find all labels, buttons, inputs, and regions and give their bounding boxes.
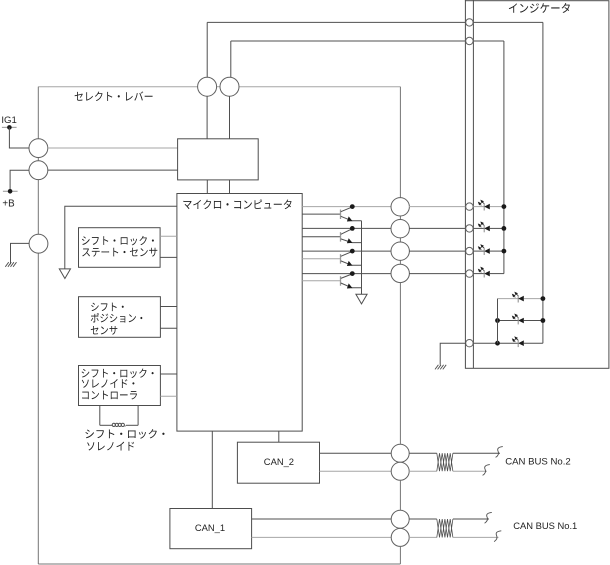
wire: indicator pin row4 to LED D4 — [473, 273, 484, 275]
terminal pin: indicator row1 — [466, 203, 473, 210]
wire: right bus between circles 1-2 — [399, 216, 401, 220]
wire: interface box to microcomputer (left) — [206, 180, 208, 194]
junction: collector node Q3 — [350, 249, 355, 254]
wire: LED D4 to common rail — [490, 273, 504, 275]
wire: state sensor to microcomputer (lower) — [160, 256, 177, 258]
wire: ground row connector circle to chassis ground — [11, 243, 30, 264]
twisted pair: CAN bus No.2 — [437, 453, 453, 471]
wire: controller to microcomputer (lower) — [160, 395, 177, 397]
wire: +B connector circle to terminal — [10, 170, 29, 191]
label: microcomputer — [183, 199, 291, 209]
wire: connector circle 2 down to interface box — [229, 96, 231, 139]
wire: right bus between circles 2-3 — [399, 238, 401, 242]
wire break: CAN_1 high — [485, 512, 492, 523]
terminal pin: indicator row4 — [466, 270, 473, 277]
inductor: shift lock solenoid coil — [112, 423, 126, 426]
block: select lever interface — [178, 139, 259, 180]
twisted pair: CAN bus No.1 — [437, 519, 453, 537]
svg-text:CAN_1: CAN_1 — [195, 522, 225, 533]
junction: collector node Q1 — [350, 204, 355, 209]
wire: position sensor to microcomputer (lower) — [160, 327, 177, 329]
wire: left rail segment 3 — [37, 180, 39, 235]
wire: right LED rail (vertical) — [542, 22, 544, 343]
connector: inline circle on left rail (ground row) — [29, 234, 48, 253]
junction: LED D3 at common rail — [502, 249, 507, 254]
connector: CAN_1 inline circle low — [391, 528, 409, 546]
wire: CAN_2 low to bus break — [453, 470, 487, 472]
junction: LED D1 at common rail — [502, 204, 507, 209]
wire: right bus segment 4 (to bottom rail) — [399, 546, 401, 564]
svg-text:CAN BUS No.1: CAN BUS No.1 — [513, 520, 577, 531]
label: shift lock state sensor line1 — [82, 236, 154, 246]
wire: IG1 to connector circle — [9, 127, 29, 148]
ground: emitter ground arrow — [356, 294, 367, 304]
wire: CAN_2 high to bus break — [453, 452, 500, 454]
wire: upper LED common rail (vertical) — [503, 41, 505, 274]
terminal IG1: dot — [7, 125, 12, 130]
label: shift position sensor line2 — [91, 313, 143, 323]
connector: inline circle on left rail (+B row) — [29, 161, 48, 180]
junction: row B at right rail — [541, 318, 546, 323]
wire: select lever connector to right bus corner — [239, 86, 400, 88]
wire: controller to solenoid (right leg) — [137, 406, 139, 426]
wire: CAN_1 low to bus break — [453, 536, 499, 538]
wire: left rail segment 4 (to bottom rail) — [37, 253, 39, 564]
indicator connector column — [472, 0, 474, 368]
block: microcomputer (マイクロ・コンピュータ) — [177, 194, 302, 432]
terminal +B: bar — [3, 190, 18, 192]
wire: LED D1 to common rail — [490, 206, 504, 208]
transistor Q2 — [341, 229, 362, 244]
label: indicator (インジケータ) — [509, 3, 570, 13]
LED D2 — [478, 222, 489, 232]
wire: interface box to microcomputer (right) — [229, 180, 231, 194]
svg-text:CAN_2: CAN_2 — [264, 456, 294, 467]
wire: solenoid left lead — [100, 424, 112, 426]
label: controller line1 — [82, 368, 154, 378]
transistor Q4 — [341, 274, 362, 289]
wire: pin B to left LED rail — [473, 40, 504, 42]
wire: state sensor to microcomputer (upper) — [160, 235, 177, 237]
wire: lower LED group row A — [498, 298, 543, 300]
ground: signal ground arrow (left) — [59, 269, 70, 279]
terminal pin: indicator row3 — [466, 247, 473, 254]
wire: microcomputer base drive 1 — [302, 213, 340, 215]
wire break: CAN_2 high — [496, 447, 503, 458]
label: select lever (セレクト・レバー) — [75, 91, 153, 101]
connector: CAN_2 inline circle high — [391, 444, 409, 462]
connector: inline circle row 1 — [391, 198, 409, 216]
LED D4 — [478, 267, 489, 277]
wire break: CAN_2 low — [483, 465, 490, 476]
terminal pin: indicator B (top2) — [466, 37, 473, 44]
label: shift lock solenoid line1 — [85, 429, 164, 439]
wire: controller to solenoid (left leg) — [99, 406, 101, 426]
connector: inline circle row 4 — [391, 264, 409, 282]
wire: microcomputer base drive 2 — [302, 236, 340, 238]
wire: inline connector 3 to indicator pin — [409, 250, 466, 252]
wire: pin ground/common to lower LED row C — [473, 342, 543, 344]
wire: controller to microcomputer (upper) — [160, 373, 177, 375]
svg-text:CAN BUS No.2: CAN BUS No.2 — [505, 457, 571, 468]
terminal pin: indicator row2 — [466, 225, 473, 232]
wire: CAN_2 high connector to twisted pair — [409, 452, 437, 454]
terminal IG1: bar — [2, 126, 17, 128]
label: controller line3 — [82, 391, 137, 400]
wire: +B connector circle to interface box — [48, 169, 178, 171]
wire: microcomputer output 1 (collector row) — [302, 206, 391, 208]
wire: right bus segment 1 (top) — [399, 87, 401, 198]
indicator unit box — [465, 1, 609, 369]
ground: chassis ground (left) — [5, 262, 16, 267]
wire: vertical drop from top wire to connector circle 1 — [206, 22, 208, 77]
block: shift lock state sensor — [79, 228, 161, 268]
wire: connector circle 1 down to interface box — [206, 96, 208, 139]
wire: CAN_2 high to connector — [320, 452, 392, 454]
wire: CAN_1 low to connector — [252, 536, 392, 538]
wire: microcomputer to CAN_2 — [278, 431, 280, 442]
wire: lower LED group left rail — [497, 299, 499, 344]
wire: right bus segment 3 (between CAN connectors) — [399, 480, 401, 510]
svg-text:IG1: IG1 — [1, 115, 16, 126]
junction: row B at left rail — [495, 318, 500, 323]
wire break: CAN_1 low — [494, 531, 501, 542]
label: shift lock state sensor line2 — [82, 248, 157, 257]
connector: CAN_2 inline circle low — [391, 462, 409, 480]
wire: LED D3 to common rail — [490, 250, 504, 252]
wire: position sensor to microcomputer (upper) — [160, 306, 177, 308]
wire: CAN_2 low to connector — [320, 470, 392, 472]
wire: CAN_1 high to bus break — [453, 518, 489, 520]
block: shift lock solenoid controller — [79, 366, 161, 406]
wire: microcomputer to CAN_1 — [211, 431, 213, 508]
wire: left rail segment 2 — [37, 158, 39, 161]
wire: right bus segment 2 (middle) — [399, 283, 401, 445]
wire: microcomputer base drive 3 — [302, 258, 340, 260]
connector: inline circle row 2 — [391, 220, 409, 238]
label: shift position sensor line1 — [91, 303, 124, 312]
wire: solenoid right lead — [126, 424, 138, 426]
connector: select lever circle 2 — [220, 77, 239, 96]
wire: select lever pair pin2 to indicator pin B — [231, 40, 466, 42]
wire: indicator common pin to chassis ground — [440, 343, 466, 365]
LED D3 — [478, 245, 489, 255]
wire: microcomputer output 4 (collector row) — [302, 273, 391, 275]
wire: LED D2 to common rail — [490, 227, 504, 229]
wire: pin A to right LED rail — [473, 21, 543, 23]
wire: indicator pin row3 to LED D3 — [473, 250, 484, 252]
block: shift position sensor — [79, 297, 161, 338]
wire: common emitter rail — [361, 221, 363, 294]
LED D6 — [512, 314, 523, 324]
ground: chassis ground (indicator) — [435, 365, 446, 370]
connector: CAN_1 inline circle high — [391, 510, 409, 528]
transistor Q1 — [341, 207, 362, 222]
wire: indicator pin row1 to LED D1 — [473, 206, 484, 208]
connector: inline circle row 3 — [391, 242, 409, 260]
wire: select lever feed (left rail to connector) — [38, 86, 197, 88]
junction: row C at left rail — [495, 341, 500, 346]
label: shift position sensor line3 — [91, 326, 118, 335]
wire: select lever pair pin1 to indicator pin A — [207, 21, 465, 23]
wire: microcomputer base drive 4 — [302, 280, 340, 282]
junction: row A at right rail — [541, 296, 546, 301]
terminal +B: dot — [8, 189, 13, 194]
wire: indicator pin row2 to LED D2 — [473, 227, 484, 229]
wire: CAN_1 high connector to twisted pair — [409, 518, 437, 520]
transistor Q3 — [341, 251, 362, 266]
label: controller line2 — [82, 379, 135, 388]
LED D7 — [512, 337, 523, 347]
wire: IG1 connector circle to interface box — [48, 147, 178, 149]
wire: microcomputer output 2 (collector row) — [302, 227, 391, 229]
label: shift lock solenoid line2 — [87, 442, 134, 451]
junction: LED D2 at common rail — [502, 226, 507, 231]
wire: left rail segment 1 — [37, 87, 39, 139]
block: CAN_2 — [237, 442, 319, 483]
wire: CAN_2 low connector to twisted pair — [409, 470, 437, 472]
connector: inline circle on left rail (IG1 row) — [29, 139, 48, 158]
wire: inline connector 2 to indicator pin — [409, 227, 466, 229]
wire: bottom rail — [38, 563, 400, 565]
wire: microcomputer output 3 (collector row) — [302, 250, 391, 252]
wire: inline connector 4 to indicator pin — [409, 273, 466, 275]
junction: collector node Q2 — [350, 226, 355, 231]
block: CAN_1 — [170, 509, 252, 549]
svg-text:+B: +B — [2, 198, 15, 209]
wire: between select lever connector circles — [217, 86, 220, 88]
wire: right bus between circles 3-4 — [399, 260, 401, 264]
wire: inline connector 1 to indicator pin — [409, 206, 466, 208]
LED D1 — [478, 200, 489, 210]
wire: microcomputer left to signal-ground arrow — [65, 206, 177, 269]
wire: lower LED group row B — [498, 320, 543, 322]
connector: select lever circle 1 — [198, 77, 217, 96]
wire: CAN_1 low connector to twisted pair — [409, 536, 437, 538]
terminal pin: indicator ground/common — [466, 340, 473, 347]
wire: CAN_1 high to connector — [252, 518, 392, 520]
terminal pin: indicator A (top1) — [466, 19, 473, 26]
LED D5 — [512, 292, 523, 302]
junction: collector node Q4 — [350, 271, 355, 276]
wire: vertical drop from second top wire to connector circle 2 — [230, 41, 232, 77]
